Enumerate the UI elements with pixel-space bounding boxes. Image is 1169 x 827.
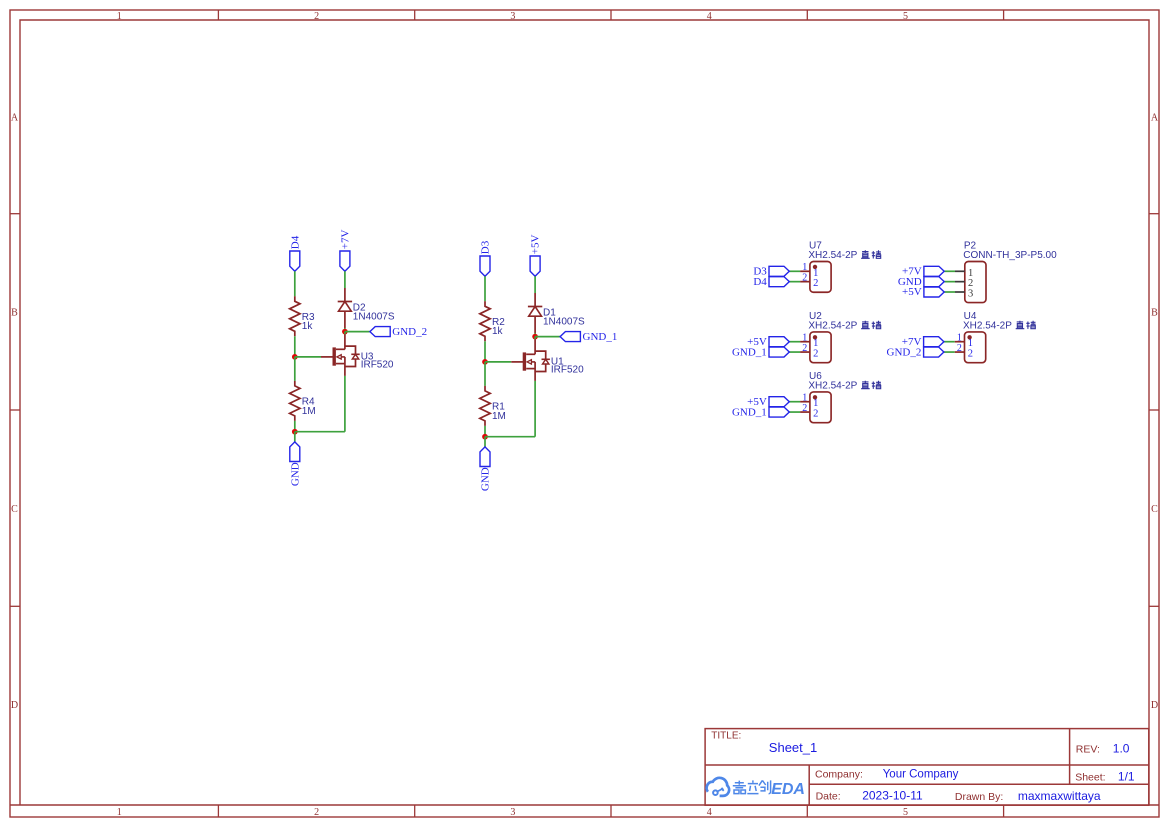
- wire: [344, 328, 346, 332]
- title block divider vertical logo: [808, 765, 810, 805]
- svg-text:2023-10-11: 2023-10-11: [862, 789, 923, 803]
- net flag GND_2: [370, 327, 390, 337]
- pin of diode D2: [344, 311, 346, 328]
- svg-text:GND_1: GND_1: [732, 346, 767, 358]
- svg-text:1: 1: [802, 333, 807, 344]
- connector U4 body: [965, 332, 986, 363]
- connector U2 pin 2 line: [800, 351, 810, 353]
- svg-text:1: 1: [117, 11, 122, 22]
- net flag GND_1 at U6: [769, 407, 789, 417]
- svg-text:A: A: [1151, 113, 1159, 124]
- frame row tick left: [10, 409, 20, 411]
- connector U7 pin1 marker: [813, 265, 817, 269]
- transistor U1 gate pin: [511, 361, 524, 363]
- transistor U3 source pin: [344, 367, 346, 376]
- svg-text:GND: GND: [480, 467, 492, 491]
- wire: [294, 357, 296, 381]
- svg-text:C: C: [1151, 504, 1158, 515]
- svg-text:3: 3: [968, 289, 973, 300]
- transistor U1 drain pin: [534, 339, 536, 354]
- connector P2 pin 2 line: [955, 281, 965, 283]
- svg-text:2: 2: [813, 409, 818, 420]
- svg-text:B: B: [1151, 308, 1158, 319]
- wire: [944, 351, 955, 353]
- logo key circle: [713, 790, 718, 795]
- wire: [295, 431, 345, 433]
- net flag GND 2: [480, 447, 490, 467]
- transistor U1 drain branch: [535, 351, 546, 359]
- svg-text:1: 1: [813, 338, 818, 349]
- net flag D4: [290, 251, 300, 271]
- svg-text:+5V: +5V: [530, 234, 542, 254]
- connector U6 body: [810, 392, 831, 423]
- svg-text:IRF520: IRF520: [361, 360, 394, 371]
- svg-text:D4: D4: [289, 235, 301, 249]
- svg-text:maxmaxwittaya: maxmaxwittaya: [1018, 789, 1101, 803]
- transistor U3 bottom channel stub: [336, 363, 345, 365]
- svg-text:1: 1: [968, 338, 973, 349]
- svg-text:1.0: 1.0: [1113, 741, 1130, 755]
- svg-text:1: 1: [802, 262, 807, 273]
- svg-text:Date:: Date:: [816, 791, 841, 803]
- svg-text:XH2.54-2P: XH2.54-2P: [808, 380, 857, 391]
- svg-text:GND_2: GND_2: [887, 346, 922, 358]
- svg-text:3: 3: [510, 807, 515, 818]
- transistor U1 top channel stub: [526, 353, 535, 355]
- node junction drain node: [342, 329, 348, 335]
- wire: [789, 270, 800, 272]
- transistor U3 body diode: [351, 353, 359, 355]
- svg-text:GND: GND: [289, 462, 301, 486]
- net flag +5V: [530, 256, 540, 276]
- wire: [534, 337, 536, 340]
- diode D2: [338, 301, 352, 303]
- logo JLCEDA cloud icon: [707, 778, 730, 796]
- net flag D3 at U7: [769, 266, 789, 276]
- svg-text:XH2.54-2P: XH2.54-2P: [963, 320, 1012, 331]
- frame column tick top: [806, 10, 808, 20]
- transistor U3 gate bar: [333, 347, 336, 365]
- net flag +7V: [340, 251, 350, 271]
- transistor U3 drain branch: [345, 346, 356, 354]
- frame row tick left: [10, 213, 20, 215]
- wire gate: [485, 361, 511, 363]
- connector U7 body: [810, 262, 831, 293]
- connector U6 pin1 marker: [813, 395, 817, 399]
- frame column tick bottom: [414, 805, 416, 817]
- wire: [535, 336, 560, 338]
- svg-text:2: 2: [968, 349, 973, 360]
- net flag D4 at U7: [769, 277, 789, 287]
- wire: [345, 331, 370, 333]
- svg-text:1: 1: [117, 807, 122, 818]
- svg-text:1/1: 1/1: [1118, 769, 1135, 783]
- wire: [294, 271, 296, 296]
- frame column tick top: [414, 10, 416, 20]
- svg-text:2: 2: [968, 278, 973, 289]
- frame column tick top: [610, 10, 612, 20]
- svg-text:1: 1: [968, 268, 973, 279]
- wire: [484, 362, 486, 386]
- wire: [484, 341, 486, 362]
- wire: [789, 401, 800, 403]
- svg-text:IRF520: IRF520: [551, 365, 584, 376]
- resistor R2: [480, 301, 490, 341]
- svg-text:1: 1: [802, 393, 807, 404]
- svg-text:2: 2: [813, 349, 818, 360]
- connector U6 pin 1 line: [800, 401, 810, 403]
- svg-text:2: 2: [314, 807, 319, 818]
- svg-text:CONN-TH_3P-P5.00: CONN-TH_3P-P5.00: [963, 250, 1057, 261]
- net flag GND_1: [560, 332, 580, 342]
- title block outline: [705, 729, 1149, 806]
- svg-text:+5V: +5V: [902, 286, 922, 298]
- svg-text:5: 5: [903, 11, 908, 22]
- wire: [944, 270, 955, 272]
- frame column tick bottom: [806, 805, 808, 817]
- frame column tick top: [1003, 10, 1005, 20]
- svg-text:1N4007S: 1N4007S: [353, 311, 395, 322]
- svg-text:1M: 1M: [492, 411, 506, 422]
- svg-text:A: A: [11, 113, 19, 124]
- net flag GND 1: [290, 442, 300, 462]
- pin of diode D2: [344, 288, 346, 302]
- svg-text:GND_2: GND_2: [392, 326, 427, 338]
- connector U7 pin 1 line: [800, 270, 810, 272]
- transistor U3 source arrow: [341, 356, 345, 358]
- net flag +7V at U4: [924, 337, 944, 347]
- svg-text:2: 2: [314, 11, 319, 22]
- logo glyph jia: [733, 781, 746, 794]
- svg-text:1k: 1k: [302, 321, 314, 332]
- svg-text:2: 2: [802, 343, 807, 354]
- wire: [484, 437, 486, 447]
- resistor R3: [290, 296, 300, 336]
- wire: [484, 426, 486, 437]
- svg-text:Your Company: Your Company: [883, 769, 959, 781]
- transistor U3 source vertical: [344, 357, 346, 367]
- svg-text:Drawn By:: Drawn By:: [955, 791, 1003, 803]
- svg-text:2: 2: [957, 343, 962, 354]
- wire: [789, 341, 800, 343]
- svg-text:EDA: EDA: [771, 781, 805, 798]
- svg-text:C: C: [11, 504, 18, 515]
- wire: [294, 336, 296, 357]
- net flag GND_1 at U2: [769, 347, 789, 357]
- svg-text:3: 3: [510, 11, 515, 22]
- svg-text:5: 5: [903, 807, 908, 818]
- net flag +5V at U6: [769, 397, 789, 407]
- svg-text:Sheet_1: Sheet_1: [769, 740, 817, 755]
- title block divider horizontal 2: [809, 783, 1149, 785]
- transistor U1 bottom channel stub: [526, 368, 535, 370]
- svg-text:D: D: [11, 700, 18, 711]
- connector U2 pin 1 line: [800, 341, 810, 343]
- connector P2 pin 3 line: [955, 291, 965, 293]
- svg-text:Sheet:: Sheet:: [1075, 771, 1105, 783]
- connector U6 pin 2 line: [800, 411, 810, 413]
- title block divider horizontal 1: [705, 764, 1149, 766]
- node junction: [292, 354, 298, 360]
- transistor U1 source pin: [534, 372, 536, 381]
- wire: [294, 432, 296, 442]
- transistor U3 body rail: [345, 359, 356, 367]
- svg-text:4: 4: [707, 807, 712, 818]
- transistor U1 body diode: [542, 358, 550, 360]
- wire: [534, 333, 536, 337]
- svg-text:2: 2: [802, 403, 807, 414]
- frame column tick bottom: [217, 805, 219, 817]
- connector U4 pin 1 line: [955, 341, 965, 343]
- connector P2 pin 1 line: [955, 270, 965, 272]
- svg-text:GND_1: GND_1: [583, 331, 618, 343]
- transistor U1 source vertical: [534, 362, 536, 372]
- wire: [344, 271, 346, 288]
- svg-text:Company:: Company:: [815, 769, 863, 781]
- logo key stem: [717, 788, 723, 792]
- pin of diode D1: [534, 316, 536, 333]
- node junction: [482, 359, 488, 365]
- resistor R1: [480, 386, 490, 426]
- transistor U1 source arrow: [531, 361, 535, 363]
- frame column tick bottom: [610, 805, 612, 817]
- wire: [944, 281, 955, 283]
- connector U2 body: [810, 332, 831, 363]
- svg-text:4: 4: [707, 11, 712, 22]
- transistor U3 gate pin: [321, 356, 334, 358]
- svg-text:REV:: REV:: [1076, 743, 1100, 755]
- svg-text:2: 2: [813, 278, 818, 289]
- transistor U3 drain pin: [344, 334, 346, 349]
- frame row tick right: [1149, 409, 1159, 411]
- wire: [789, 281, 800, 283]
- net flag +5V at U2: [769, 337, 789, 347]
- svg-text:+7V: +7V: [339, 229, 351, 249]
- wire: [944, 291, 955, 293]
- frame row tick right: [1149, 213, 1159, 215]
- frame row tick right: [1149, 605, 1159, 607]
- connector U4 pin 2 line: [955, 351, 965, 353]
- connector P2 body: [965, 262, 986, 303]
- frame row tick left: [10, 605, 20, 607]
- wire: [344, 332, 346, 335]
- svg-text:1N4007S: 1N4007S: [543, 316, 585, 327]
- svg-text:1k: 1k: [492, 326, 504, 337]
- connector U7 pin 2 line: [800, 281, 810, 283]
- net flag +7V at P2: [924, 266, 944, 276]
- connector U2 pin1 marker: [813, 335, 817, 339]
- title block divider vertical rev: [1069, 729, 1071, 785]
- wire: [789, 411, 800, 413]
- logo glyph chuang: [759, 780, 771, 793]
- wire gate: [295, 356, 321, 358]
- net flag GND_2 at U4: [924, 347, 944, 357]
- svg-text:1M: 1M: [302, 406, 316, 417]
- wire: [534, 276, 536, 293]
- wire source to ground: [534, 381, 536, 437]
- diode D1: [528, 306, 542, 308]
- svg-text:D4: D4: [753, 276, 767, 288]
- svg-text:1: 1: [813, 268, 818, 279]
- transistor U3 top channel stub: [336, 348, 345, 350]
- wire: [484, 276, 486, 301]
- node junction drain node: [532, 334, 538, 340]
- wire: [485, 436, 535, 438]
- svg-text:GND_1: GND_1: [732, 406, 767, 418]
- frame column tick bottom: [1003, 805, 1005, 817]
- resistor R4: [290, 381, 300, 421]
- svg-text:1: 1: [957, 333, 962, 344]
- transistor U1 body rail: [535, 364, 546, 372]
- node junction: [482, 434, 488, 440]
- net flag D3: [480, 256, 490, 276]
- wire: [944, 341, 955, 343]
- svg-text:B: B: [11, 308, 18, 319]
- svg-text:1: 1: [813, 398, 818, 409]
- wire: [294, 421, 296, 432]
- pin of diode D1: [534, 293, 536, 307]
- connector U4 pin1 marker: [967, 335, 971, 339]
- svg-text:XH2.54-2P: XH2.54-2P: [808, 320, 857, 331]
- transistor U1 gate bar: [523, 352, 526, 370]
- wire: [789, 351, 800, 353]
- svg-text:XH2.54-2P: XH2.54-2P: [808, 250, 857, 261]
- net flag +5V at P2: [924, 287, 944, 297]
- svg-text:D3: D3: [480, 240, 492, 254]
- wire source to ground: [344, 376, 346, 432]
- svg-text:2: 2: [802, 273, 807, 284]
- frame column tick top: [217, 10, 219, 20]
- logo glyph li: [747, 780, 758, 793]
- net flag GND at P2: [924, 277, 944, 287]
- svg-text:D: D: [1151, 700, 1158, 711]
- node junction: [292, 429, 298, 435]
- svg-text:TITLE:: TITLE:: [711, 731, 741, 742]
